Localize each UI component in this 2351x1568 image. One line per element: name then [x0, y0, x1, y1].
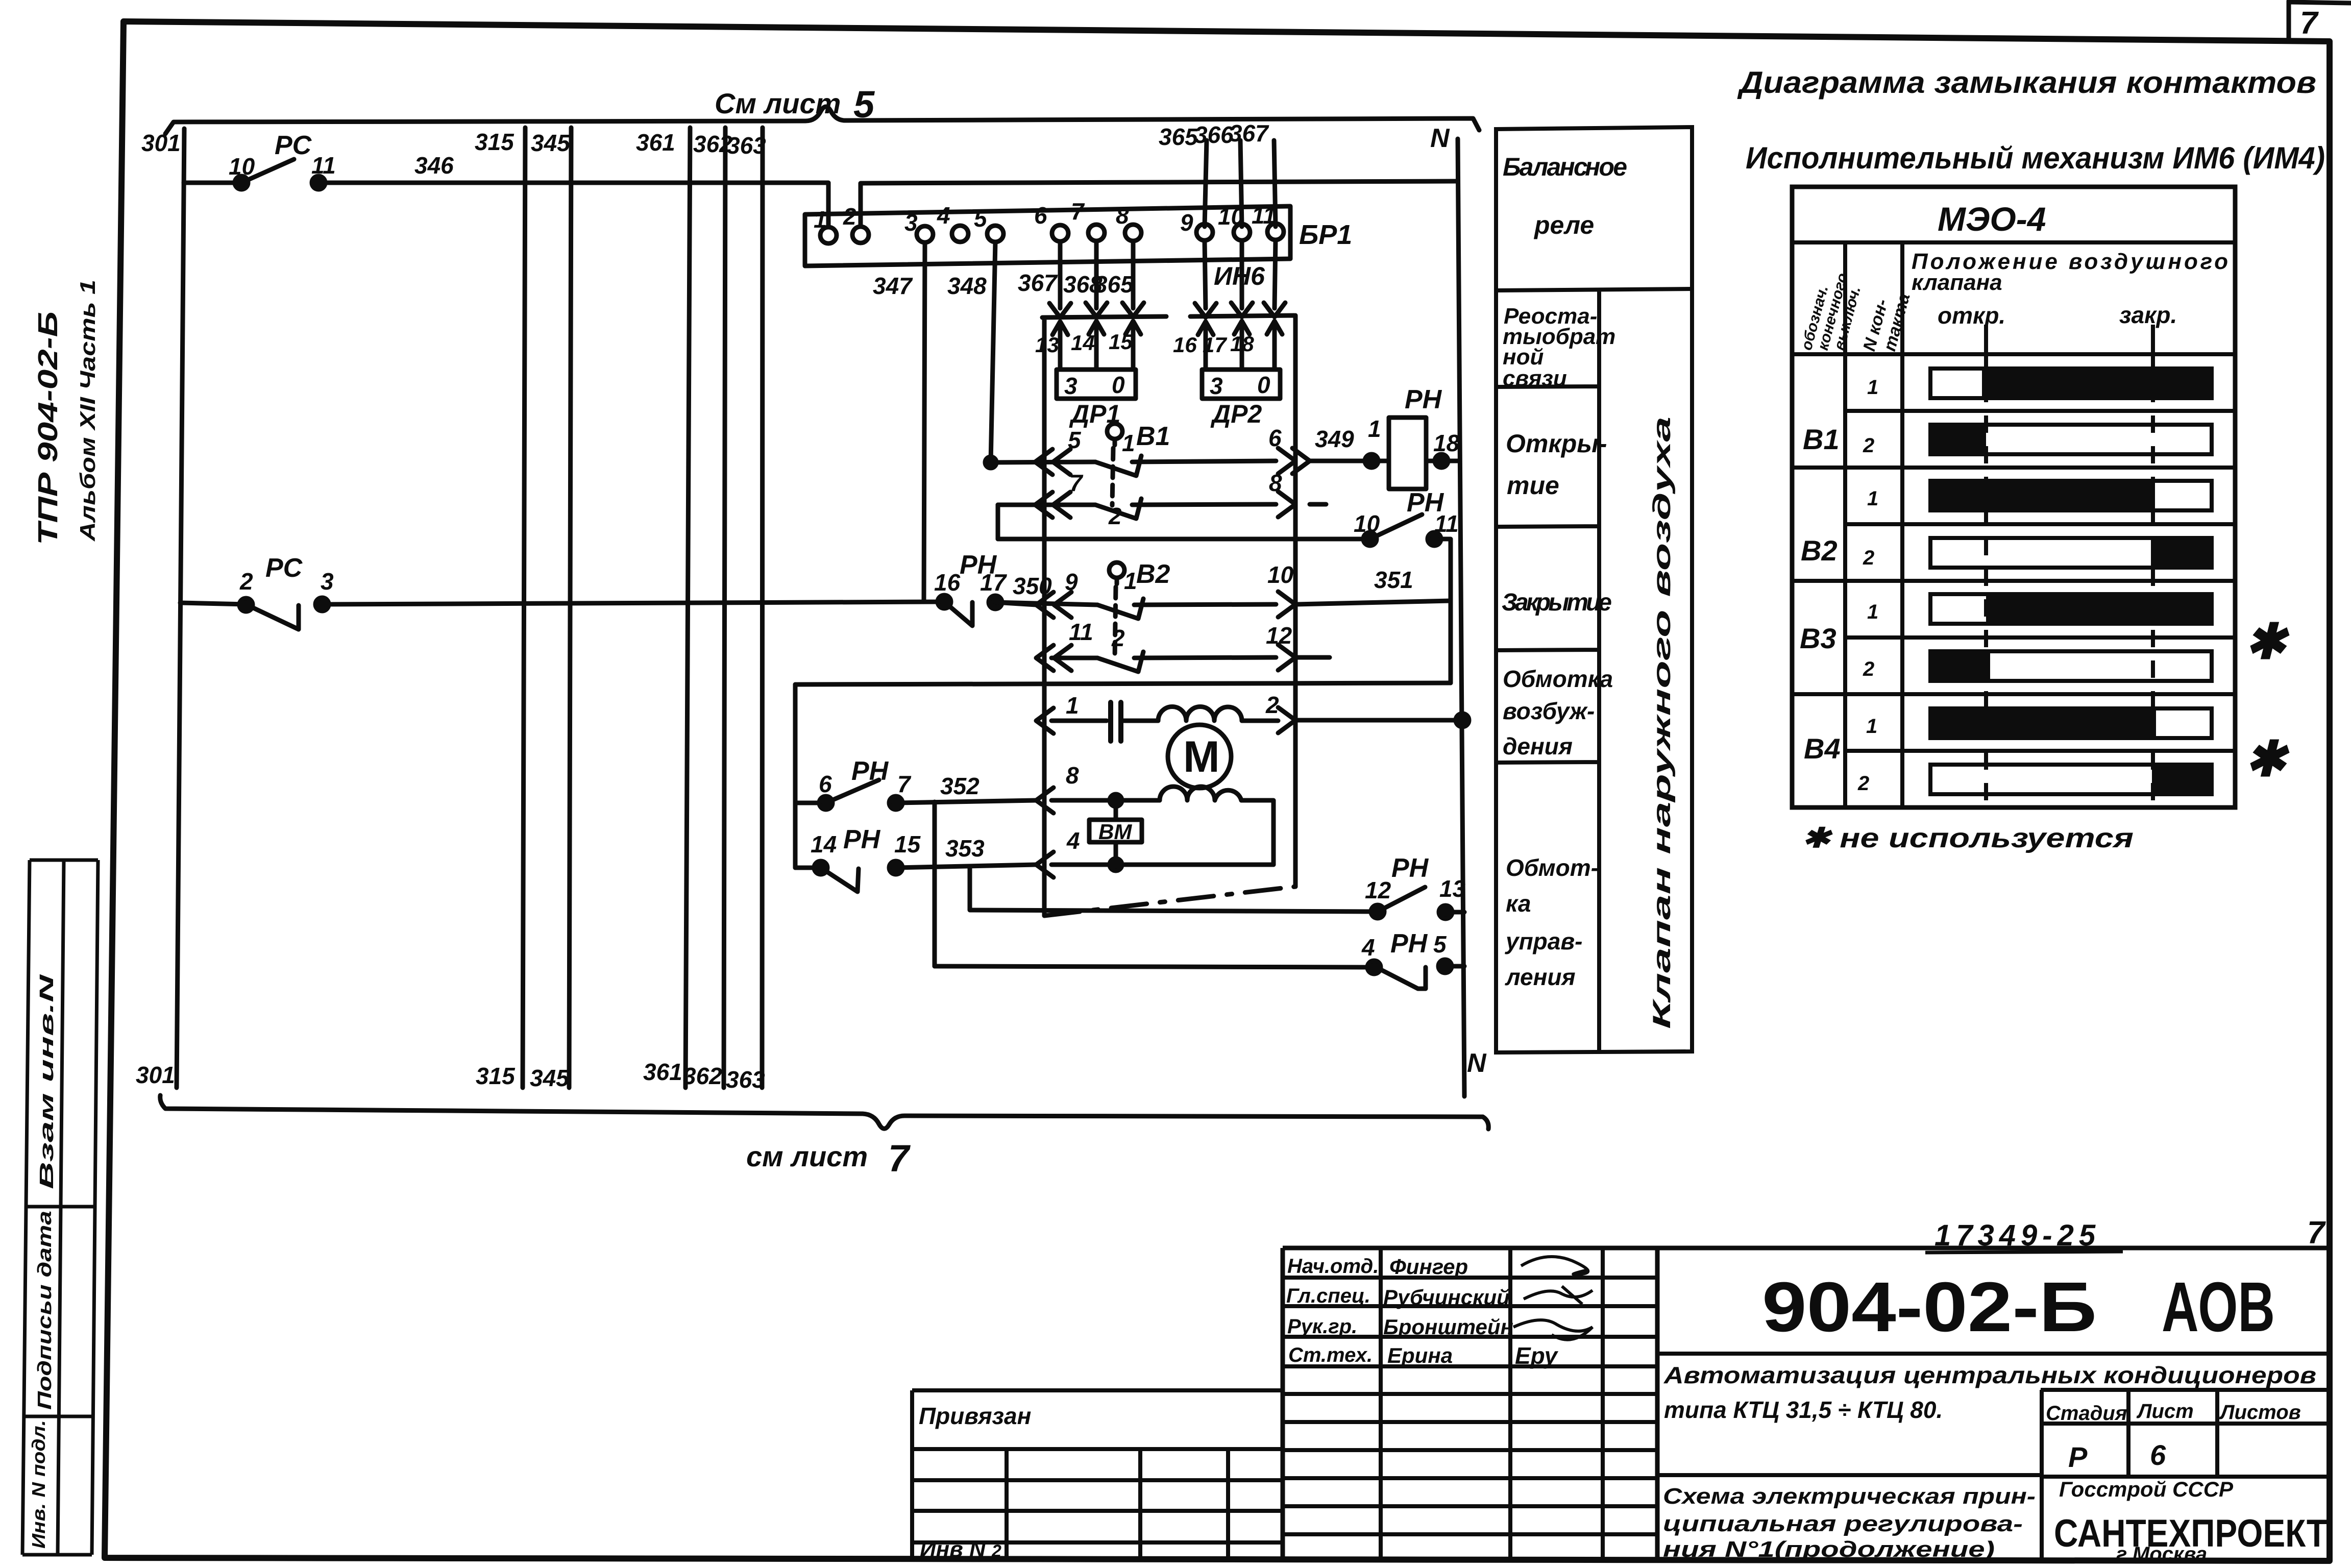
svg-text:8: 8: [1269, 470, 1282, 496]
signature rows: [1283, 1278, 1657, 1534]
svg-text:351: 351: [1374, 567, 1413, 593]
svg-text:связи: связи: [1503, 366, 1567, 391]
svg-text:тие: тие: [1507, 471, 1559, 500]
схема box top: [1657, 1473, 2042, 1477]
svg-text:1: 1: [1867, 487, 1878, 510]
svg-text:367: 367: [1229, 120, 1269, 146]
РН 4-5 row: [935, 966, 1464, 989]
wire 350 into В2 pin9: [995, 602, 1036, 605]
wire 368 БР1-7 down: [1094, 241, 1099, 308]
svg-text:1: 1: [1867, 376, 1878, 399]
svg-text:Ерина: Ерина: [1387, 1343, 1453, 1367]
В1 row2 pins 7-8 wire: [998, 504, 1326, 505]
row lines: [1792, 411, 2235, 751]
svg-text:Нач.отд.: Нач.отд.: [1287, 1255, 1379, 1278]
svg-text:0: 0: [1112, 372, 1125, 398]
vertical 1558: [793, 684, 798, 868]
svg-text:4: 4: [1066, 827, 1080, 854]
svg-text:РН: РН: [1390, 929, 1428, 959]
svg-text:6: 6: [1034, 202, 1047, 229]
signature columns: [1381, 1248, 1603, 1560]
svg-text:1: 1: [1122, 430, 1135, 456]
В1 row1 right chevrons: [1278, 448, 1310, 474]
relay РН box: [1389, 418, 1426, 489]
svg-text:ципиальная регулирова-: ципиальная регулирова-: [1663, 1511, 2023, 1536]
pin4 left chevron: [1036, 852, 1054, 877]
svg-text:Лист: Лист: [2136, 1400, 2194, 1423]
svg-text:Р: Р: [2068, 1441, 2088, 1473]
svg-text:315: 315: [475, 129, 515, 155]
svg-text:5: 5: [1433, 931, 1447, 958]
svg-text:ления: ления: [1505, 964, 1576, 990]
svg-text:16: 16: [1173, 333, 1197, 357]
svg-text:Фингер: Фингер: [1389, 1255, 1468, 1279]
svg-text:Привязан: Привязан: [919, 1403, 1031, 1429]
svg-text:реле: реле: [1533, 211, 1594, 239]
svg-text:12: 12: [1266, 622, 1292, 649]
svg-text:закр.: закр.: [2119, 302, 2177, 328]
В1 switch circle and link: [1107, 424, 1122, 439]
svg-text:Гл.спец.: Гл.спец.: [1286, 1285, 1370, 1307]
bus 301: [177, 129, 184, 1088]
svg-text:350: 350: [1013, 573, 1052, 599]
svg-text:Рук.гр.: Рук.гр.: [1287, 1315, 1357, 1338]
svg-text:353: 353: [945, 835, 985, 862]
svg-text:4: 4: [1361, 934, 1375, 961]
N bus: [1458, 139, 1464, 1096]
svg-text:Клапан наружного воздуха: Клапан наружного воздуха: [1649, 416, 1676, 1029]
svg-text:Ст.тех.: Ст.тех.: [1288, 1344, 1373, 1366]
svg-text:349: 349: [1315, 426, 1354, 452]
svg-text:типа КТЦ 31,5 ÷ КТЦ 80.: типа КТЦ 31,5 ÷ КТЦ 80.: [1664, 1396, 1943, 1423]
svg-text:7: 7: [897, 771, 912, 797]
svg-text:Обмотка: Обмотка: [1503, 666, 1613, 692]
svg-text:✱: ✱: [2245, 732, 2290, 787]
В2 row2 right chevron: [1278, 645, 1295, 670]
wires 365 366 367 from sheet5 to БР1: [1205, 140, 1276, 227]
enclosure ИМ box: [1042, 315, 1295, 916]
svg-text:г.Москва: г.Москва: [2116, 1543, 2207, 1565]
brake ВМ branch: [1114, 800, 1118, 865]
table МЭО-4 frame: [1792, 187, 2235, 807]
svg-text:352: 352: [940, 773, 979, 799]
signature squiggles: [1521, 1257, 1588, 1275]
svg-text:8: 8: [1116, 202, 1129, 229]
svg-text:9: 9: [1065, 569, 1078, 595]
svg-text:АОВ: АОВ: [2162, 1268, 2275, 1346]
svg-text:14: 14: [811, 831, 837, 857]
contact РН 16-17: [944, 602, 972, 626]
control winding coil: [1160, 787, 1241, 800]
left extension привязан: [912, 1390, 1283, 1559]
svg-text:904-02-Б: 904-02-Б: [1762, 1268, 2097, 1346]
svg-text:348: 348: [947, 273, 987, 299]
wire row 1338: [795, 683, 1451, 684]
svg-text:346: 346: [414, 152, 454, 179]
В2 row2 pins 11-12 wire: [1051, 657, 1330, 658]
bar В3-2: [1930, 651, 2212, 681]
contact РН 12-13: [1378, 887, 1464, 912]
svg-text:7: 7: [1069, 470, 1084, 496]
svg-text:Откры-: Откры-: [1506, 429, 1607, 458]
svg-text:13: 13: [1439, 875, 1466, 902]
svg-text:Бронштейн: Бронштейн: [1383, 1315, 1513, 1339]
main title box: [1657, 1354, 2330, 1390]
pin8 left chevron: [1036, 788, 1054, 813]
В2 row1 right chevron: [1278, 592, 1295, 617]
wire 352 vertical down: [933, 802, 937, 966]
connector pins 16 17 18 arrows: [1198, 321, 1282, 370]
wire 346: [319, 183, 828, 227]
contact РС 10-11: [184, 159, 294, 183]
svg-text:МЭО-4: МЭО-4: [1938, 200, 2046, 238]
svg-text:Подписьи дата: Подписьи дата: [34, 1211, 56, 1410]
bracket line to sheet 5: [165, 107, 1479, 134]
svg-text:18: 18: [1230, 332, 1254, 356]
bar В2-1: [1930, 481, 2212, 510]
bar В3-1: [1930, 594, 2212, 624]
svg-text:РН: РН: [1405, 385, 1442, 414]
svg-text:8: 8: [1066, 762, 1079, 789]
svg-text:откр.: откр.: [1938, 302, 2005, 329]
В1 row2 left chevrons: [1035, 492, 1070, 518]
svg-text:Госстрой СССР: Госстрой СССР: [2059, 1477, 2234, 1501]
wire 363: [762, 128, 763, 1088]
svg-text:0: 0: [1257, 372, 1270, 398]
svg-text:См лист: См лист: [715, 87, 841, 119]
svg-text:см лист: см лист: [746, 1140, 868, 1172]
svg-text:1: 1: [1368, 415, 1381, 442]
field winding coil: [1158, 707, 1242, 721]
svg-text:315: 315: [476, 1063, 516, 1089]
svg-text:10: 10: [1218, 203, 1244, 230]
svg-text:7: 7: [2307, 1215, 2326, 1251]
svg-text:РН: РН: [843, 825, 881, 854]
В2 row1 pins 9-10 wire 350: [995, 602, 1276, 605]
svg-text:ВМ: ВМ: [1098, 820, 1132, 844]
svg-text:6: 6: [2150, 1439, 2166, 1471]
svg-text:Еру: Еру: [1515, 1342, 1559, 1369]
svg-text:18: 18: [1433, 430, 1460, 456]
svg-text:301: 301: [136, 1062, 175, 1088]
svg-text:Инв. N подл.: Инв. N подл.: [28, 1420, 49, 1549]
wire 349 РН relay row: [1310, 459, 1458, 463]
svg-text:11: 11: [1252, 202, 1276, 229]
svg-text:15: 15: [1109, 330, 1133, 354]
В1 row2 right chevron: [1278, 492, 1295, 517]
svg-text:Автоматизация центральных конд: Автоматизация центральных кондиционеров: [1663, 1362, 2316, 1388]
svg-text:7: 7: [2300, 6, 2319, 41]
БР1 terminal circles 1-11: [820, 227, 837, 243]
РН 10-11 contact row: [998, 514, 1451, 683]
pin4 row: [1051, 863, 1274, 867]
wire 361: [685, 128, 690, 1088]
svg-text:М: М: [1183, 732, 1220, 781]
svg-text:14: 14: [1071, 331, 1095, 355]
svg-text:ТПР 904-02-Б: ТПР 904-02-Б: [33, 311, 63, 545]
svg-text:2: 2: [843, 203, 856, 230]
page number box: [2289, 1, 2351, 41]
terminal block БР1: [805, 206, 1290, 266]
svg-text:ИН6: ИН6: [1214, 262, 1265, 290]
svg-text:ния N°1(продолжение): ния N°1(продолжение): [1663, 1537, 1995, 1562]
connector forks ДР1: [1049, 303, 1144, 317]
svg-text:3: 3: [321, 568, 334, 595]
svg-text:1: 1: [1867, 601, 1878, 623]
wire to РН12-13 row: [970, 867, 1378, 912]
svg-text:3: 3: [904, 209, 918, 236]
В2 row1 blade: [1097, 599, 1143, 619]
bar В1-1: [1930, 369, 2212, 398]
bar В4-2: [1930, 765, 2212, 794]
svg-text:✱ не используется: ✱ не используется: [1802, 823, 2134, 853]
svg-text:1: 1: [1124, 568, 1137, 594]
svg-text:2: 2: [1265, 692, 1279, 718]
svg-text:Обмот-: Обмот-: [1506, 854, 1599, 881]
В1 row2 blade: [1095, 499, 1141, 519]
В1 row1 left chevrons: [1035, 449, 1070, 475]
wires ИН6 БР1-9,10,11 down: [1205, 240, 1276, 308]
svg-text:2: 2: [1111, 625, 1125, 651]
svg-text:дения: дения: [1503, 733, 1573, 759]
bar В1-2: [1930, 425, 2212, 454]
svg-text:9: 9: [1180, 209, 1193, 236]
svg-text:Альбом XII Часть 1: Альбом XII Часть 1: [76, 280, 100, 542]
svg-text:РС: РС: [265, 553, 303, 583]
svg-text:Взам инв.N: Взам инв.N: [36, 973, 58, 1189]
enclosure bottom dash-dot: [1044, 887, 1295, 916]
wire 350 long row to РН16-17: [322, 602, 944, 604]
contact РС 2-3: [180, 603, 299, 629]
svg-text:В2: В2: [1801, 534, 1838, 567]
В2 switch circle and link: [1109, 562, 1124, 578]
wire 362: [724, 128, 725, 1088]
wire 345: [569, 128, 571, 1088]
svg-text:ДР2: ДР2: [1210, 400, 1262, 428]
svg-text:Схема электрическая прин-: Схема электрическая прин-: [1663, 1484, 2036, 1509]
svg-text:РС: РС: [275, 131, 312, 160]
capacitor row pins 1-2: [1051, 720, 1462, 721]
svg-text:2: 2: [1857, 772, 1869, 795]
svg-text:17: 17: [980, 569, 1008, 596]
capacitor: [1111, 702, 1121, 741]
box ДР1: [1057, 370, 1136, 399]
svg-text:управ-: управ-: [1505, 928, 1582, 954]
wire В1row2 to РН10 row: [996, 505, 1000, 539]
svg-text:N: N: [1430, 124, 1450, 153]
svg-text:13: 13: [1035, 333, 1059, 357]
В2 row2 left chevron: [1036, 645, 1071, 671]
bar В4-1: [1930, 708, 2212, 738]
svg-text:Инв N 2: Инв N 2: [920, 1537, 1001, 1562]
svg-text:363: 363: [726, 1066, 765, 1093]
svg-text:7: 7: [888, 1137, 911, 1180]
svg-text:1: 1: [814, 206, 827, 233]
svg-text:Рубчинский: Рубчинский: [1383, 1285, 1510, 1309]
svg-text:6: 6: [819, 771, 832, 797]
left stamp column: [22, 860, 98, 1555]
svg-text:11: 11: [311, 152, 336, 179]
стадия table: [2042, 1390, 2330, 1561]
svg-text:В3: В3: [1800, 622, 1836, 654]
svg-text:✱: ✱: [2245, 615, 2290, 669]
svg-text:Исполнительный механизм ИМ6: Исполнительный механизм ИМ6 (ИМ4): [1746, 141, 2325, 175]
svg-text:4: 4: [937, 202, 950, 229]
svg-text:365: 365: [1159, 124, 1198, 150]
svg-text:16: 16: [934, 569, 961, 596]
dashed line закр: [2151, 325, 2155, 354]
В1 row1 pins 5-6 wire: [991, 461, 1276, 462]
svg-text:Закрытие: Закрытие: [1502, 589, 1612, 616]
svg-text:6: 6: [1268, 425, 1282, 451]
svg-text:345: 345: [531, 130, 571, 156]
svg-text:БР1: БР1: [1299, 219, 1352, 250]
connector pins 13 14 15 arrows: [1052, 321, 1141, 370]
svg-text:Листов: Листов: [2219, 1401, 2301, 1424]
wire 367 БР1-6 down: [1058, 241, 1063, 308]
svg-text:Баланс­ное: Баланс­ное: [1503, 153, 1627, 181]
svg-text:В4: В4: [1804, 732, 1841, 765]
РН 14-15 wire 353 row: [795, 865, 1036, 892]
svg-text:клапана: клапана: [1912, 270, 2002, 295]
svg-text:12: 12: [1365, 877, 1391, 903]
В2 row2 blade: [1097, 652, 1143, 672]
svg-text:347: 347: [873, 273, 913, 299]
svg-text:362: 362: [683, 1063, 722, 1089]
labels column frame: [1496, 127, 1692, 1052]
svg-text:361: 361: [643, 1059, 682, 1085]
wire terminal2 to N: [861, 181, 1458, 227]
box ДР2: [1202, 370, 1280, 399]
svg-text:В2: В2: [1136, 559, 1170, 589]
wire 348 БР1-5 down: [991, 242, 995, 462]
svg-text:361: 361: [636, 129, 675, 156]
svg-text:15: 15: [894, 831, 921, 857]
svg-text:365: 365: [1094, 271, 1134, 298]
brake ВМ box: [1089, 820, 1142, 842]
svg-text:11: 11: [1434, 510, 1459, 537]
svg-text:ка: ка: [1506, 890, 1531, 917]
svg-text:3: 3: [1210, 373, 1223, 399]
capacitor row left chevron: [1036, 708, 1054, 733]
svg-text:7: 7: [1071, 198, 1085, 225]
svg-text:366: 366: [1194, 121, 1234, 148]
svg-text:2: 2: [239, 568, 253, 595]
wire 347 БР1-3 down: [924, 242, 925, 601]
svg-text:5: 5: [1068, 427, 1082, 453]
svg-text:Диаграмма замыкания контакто: Диаграмма замыкания контактов: [1737, 65, 2316, 100]
bracket line to sheet 7: [160, 1095, 1489, 1129]
svg-text:345: 345: [530, 1065, 570, 1091]
svg-text:2: 2: [1863, 434, 1874, 457]
motor M circle: [1168, 725, 1231, 788]
svg-text:2: 2: [1863, 547, 1874, 569]
connector forks ИН6: [1195, 303, 1285, 317]
bar В2-2: [1930, 538, 2212, 568]
svg-text:2: 2: [1108, 503, 1122, 529]
svg-text:В1: В1: [1136, 422, 1170, 451]
control winding row pin 8: [1051, 800, 1274, 865]
svg-text:РН: РН: [1391, 853, 1429, 883]
РН 6-7 wire 352 row: [795, 780, 1036, 803]
wire 365 БР1-8 down: [1131, 241, 1136, 308]
svg-text:5: 5: [974, 205, 988, 232]
svg-text:301: 301: [141, 130, 181, 156]
capacitor row right chevron: [1278, 707, 1295, 733]
svg-text:2: 2: [1863, 658, 1874, 680]
svg-text:10: 10: [1267, 561, 1294, 588]
svg-text:5: 5: [853, 83, 875, 126]
svg-text:11: 11: [1069, 619, 1093, 645]
svg-text:17349-25: 17349-25: [1934, 1219, 2100, 1252]
В1 row1 blade: [1095, 456, 1141, 476]
svg-text:возбуж-: возбуж-: [1503, 698, 1595, 724]
wire 315: [523, 128, 525, 1088]
svg-text:10: 10: [229, 153, 255, 180]
svg-text:N: N: [1467, 1048, 1487, 1078]
title block frame: [1283, 1248, 2330, 1561]
svg-text:1: 1: [1866, 715, 1877, 738]
svg-text:В1: В1: [1803, 423, 1840, 455]
svg-text:17: 17: [1203, 333, 1227, 357]
svg-text:3: 3: [1064, 373, 1077, 399]
svg-text:363: 363: [727, 132, 766, 159]
svg-text:ДР1: ДР1: [1069, 400, 1120, 428]
svg-text:10: 10: [1354, 510, 1380, 537]
svg-text:367: 367: [1018, 269, 1058, 296]
dashed line откр: [1984, 325, 1988, 354]
wire 351: [1295, 601, 1451, 604]
svg-text:РН: РН: [851, 756, 889, 786]
svg-text:1: 1: [1066, 692, 1079, 719]
svg-text:Стадия: Стадия: [2046, 1402, 2127, 1425]
В2 row1 left chevrons: [1036, 592, 1071, 618]
